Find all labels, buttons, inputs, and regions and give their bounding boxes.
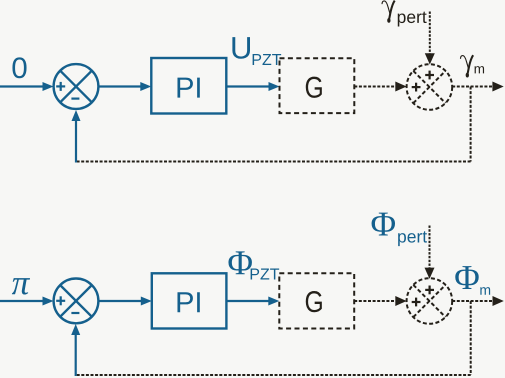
- S2 plus sign top: [425, 71, 434, 80]
- wire gamma_pert down to S2 (dashed): [425, 12, 435, 65]
- node label Phi_PZT: [228, 251, 279, 279]
- S1 plus sign: [56, 82, 65, 91]
- S2 plus sign left: [412, 83, 421, 92]
- node label Phi_pert: [372, 213, 427, 247]
- node label 0 (setpoint): [12, 57, 26, 78]
- feedback wire bottom: horizontal run (dashed): [76, 374, 471, 376]
- node label gamma_m: [460, 55, 473, 77]
- wire G to S4 (dashed): [354, 296, 406, 306]
- block PI (controller, bottom): [152, 273, 227, 328]
- feedback wire top: vertical up into S1 (solid blue): [72, 110, 81, 163]
- feedback wire top: horizontal run (dashed): [76, 161, 471, 163]
- wire PI to G (bottom): [226, 297, 279, 306]
- node label U_PZT: [232, 37, 281, 65]
- S4 plus sign left: [412, 298, 421, 307]
- S3 minus sign: [71, 312, 79, 314]
- feedback wire bottom: vertical up into S3 (solid blue): [71, 324, 80, 376]
- wire S4 to output (dashed): [452, 296, 504, 306]
- wire S3 to PI: [98, 297, 151, 306]
- summing junction S4 (dashed): [407, 278, 453, 324]
- S1 minus sign: [71, 97, 79, 99]
- wire input to summing junction S1: [0, 82, 54, 91]
- block G (plant, bottom): [279, 273, 354, 328]
- wire S1 to PI: [98, 82, 151, 91]
- block PI (controller, top): [151, 58, 226, 114]
- wire G to S2 (dashed): [354, 82, 406, 92]
- wire PI to G: [226, 82, 279, 91]
- S4 plus sign top: [425, 286, 434, 295]
- wire Phi_pert down to S4 (dashed): [425, 226, 435, 279]
- summing junction S2 (dashed): [407, 64, 453, 110]
- S3 plus sign: [56, 296, 65, 305]
- wire S2 to output (dashed): [452, 82, 504, 92]
- wire input to summing junction S3: [0, 297, 54, 306]
- node label Phi_m: [455, 266, 490, 295]
- feedback wire top: vertical drop (dashed): [470, 87, 472, 162]
- summing junction S1: [54, 64, 99, 109]
- block G (plant, top): [280, 58, 355, 113]
- node label gamma_pert: [382, 1, 395, 23]
- feedback wire bottom: vertical drop (dashed): [470, 301, 472, 375]
- node label pi (setpoint): [12, 278, 30, 294]
- summing junction S3: [54, 279, 99, 324]
